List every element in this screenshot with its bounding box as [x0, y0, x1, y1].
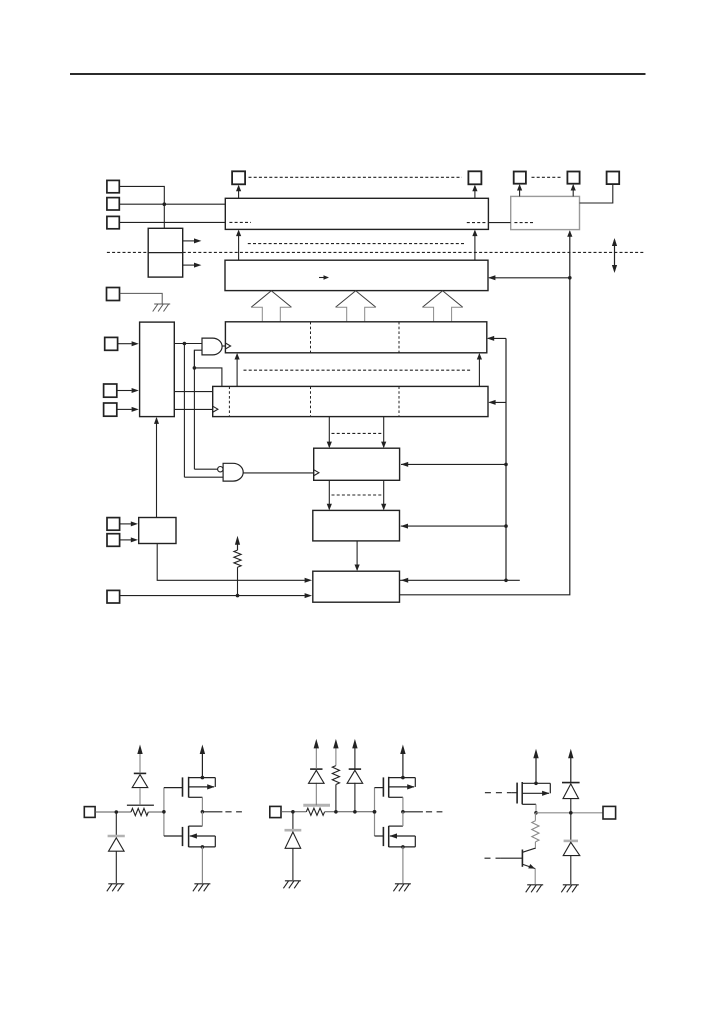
vertical net from AND junction down to G2 lower: [183, 344, 185, 478]
pin box P6: [104, 384, 117, 397]
arrow L1 bottom to B6 right: [383, 480, 385, 509]
dashed line between L1 and B6: [332, 494, 385, 496]
arrow L1 bottom to B6 left: [328, 480, 330, 509]
pin box P3 (top-left 3): [107, 216, 119, 228]
pull-up resistor R1 with arrow to VDD: [237, 567, 239, 595]
wire B5 to B4 clock: [174, 408, 212, 410]
arrow F1 into L1: [504, 463, 508, 467]
top horizontal rule: [70, 73, 646, 75]
clock wedge on B4: [213, 406, 218, 412]
hollow block arrow 1 (B2 to counter): [251, 291, 291, 308]
dashed divider in B3 right: [398, 322, 400, 353]
arrow P6 into B5: [117, 390, 132, 392]
counter box B4: [213, 386, 488, 416]
protection diode D1 to ground: [115, 812, 117, 836]
feedback line F1 vertical: [505, 338, 507, 580]
prescaler divider box B1c: [148, 228, 183, 277]
wire P2 to register box: [119, 203, 225, 205]
CMOS inverter Q1/Q2: [163, 788, 165, 836]
wire node down to prescaler box: [163, 204, 165, 228]
pin box T1 above B1: [232, 171, 245, 184]
hollow block arrow 3: [422, 291, 462, 308]
pin box T5 right: [607, 172, 620, 185]
arrow from oscillator up into B5: [156, 418, 158, 517]
clock wedge on L1: [314, 470, 319, 476]
gate input dashed wire W3: [485, 792, 511, 794]
arrow gray box top to T4: [572, 185, 574, 196]
arrow B4 top to B3 bottom right: [478, 354, 480, 386]
pin box P2 (top-left 2): [107, 198, 119, 210]
arrow gray box top to T3: [519, 185, 521, 196]
pin box P1 (top-left 1): [107, 180, 119, 192]
arrow B4 top to B3 bottom left: [236, 354, 238, 386]
input select tall box B5: [140, 322, 175, 417]
double-headed vertical arrow crossing separator: [614, 240, 616, 271]
main dashed separator line left part: [107, 251, 148, 253]
Q6 emitter to ground: [534, 869, 536, 885]
series resistor R3: [306, 808, 324, 815]
output PMOS Q5: [516, 783, 518, 804]
Q5 drain wire down: [535, 804, 537, 813]
series resistor R2: [131, 808, 148, 815]
output wire to pin: [536, 812, 603, 814]
input wire W2: [281, 811, 306, 813]
protection diode D3 to ground: [292, 812, 294, 830]
junction F2 to B2: [568, 276, 572, 280]
dashed divider in B4 b: [310, 386, 312, 416]
arrow P7 into B5: [117, 408, 132, 410]
dashed divider in B4 a: [228, 386, 230, 416]
wire P1 to node: [119, 186, 164, 204]
dashed divider in B3 left: [310, 322, 312, 353]
arrow out of B1c upper: [183, 240, 195, 242]
arrow F1 into B6: [504, 524, 508, 528]
junction J4: [353, 810, 357, 814]
G2 upper input wire: [194, 468, 217, 470]
ground symbol for P4: [154, 303, 170, 305]
dashed divider in B4 c: [398, 386, 400, 416]
dashed line between B4 and L1: [332, 432, 385, 434]
gray plate over R3: [303, 804, 330, 807]
pin box T4 above gray box: [567, 172, 579, 184]
arrow B1 top to T1: [238, 186, 240, 198]
arrow out of B1c lower: [183, 264, 195, 266]
G2 lower input wire: [184, 476, 223, 478]
AND gate G1 lower input wire: [194, 350, 202, 368]
small right arrow glyph inside B2: [319, 277, 328, 279]
gate G2 (AND with inverted input): [218, 467, 223, 472]
pin box CP1: [84, 807, 95, 818]
output node junction J6: [534, 811, 538, 815]
branch from G1 lower input to B4 data: [194, 368, 222, 387]
junction on AND input: [183, 342, 187, 346]
pin box P7: [104, 403, 117, 416]
G2 output to latch clock: [243, 472, 313, 474]
ground symbol G1a: [108, 883, 124, 885]
NPN transistor Q6: [521, 850, 523, 867]
wire R3 to branches: [325, 811, 375, 813]
box B6 (swallow counter): [313, 510, 400, 541]
wire B5 to B4 upper: [174, 391, 212, 393]
link B1 to gray box with dashed ends: [467, 222, 486, 224]
latch box L1: [314, 448, 400, 480]
arrow B6 bottom to B7: [356, 541, 358, 570]
register box B1 (shift register): [225, 198, 488, 229]
plate bar over R2: [127, 804, 154, 806]
protection diode D5 to VDD: [354, 783, 356, 812]
arrow B2 top to B1 bottom left: [238, 231, 240, 260]
box B7 (phase comparator): [313, 571, 400, 602]
F1 bottom junction into B7: [504, 579, 508, 583]
arrow B4 bottom to latch L1 left: [328, 417, 330, 447]
junction J2: [291, 810, 295, 814]
wire P3 to register box: [119, 221, 225, 223]
dashed bus line upper (data): [248, 243, 466, 245]
pin box CP3: [603, 806, 616, 819]
clamp diode D7 to ground: [570, 813, 572, 841]
pin box T3 above gray box: [514, 172, 526, 184]
arrow F1 into B3: [488, 337, 506, 339]
pin box P10 (bottom left): [107, 590, 120, 603]
clamp diode D6 to VDD: [570, 752, 572, 783]
vertical net from G1 input down to G2: [193, 350, 195, 469]
junction pull-up node: [236, 594, 240, 598]
base resistor R5: [534, 813, 536, 821]
latch box B2: [225, 260, 488, 290]
wire B5 to AND gate upper input: [174, 343, 202, 345]
pin box P4 (test pin): [107, 288, 120, 301]
arrow P8 into B8: [120, 523, 131, 525]
arrow F1 into B4: [489, 401, 506, 403]
pull-up resistor R4 to VDD: [335, 785, 337, 812]
divider line inside B1c: [148, 252, 183, 254]
CMOS inverter Q3/Q4: [374, 788, 376, 836]
ground symbol G2a: [285, 880, 301, 882]
pin box CP2: [270, 806, 281, 817]
junction J1: [115, 810, 119, 814]
pin box P5: [105, 337, 118, 350]
oscillator box B8: [139, 518, 176, 544]
counter box B3: [225, 322, 486, 353]
arrow F2 into B2: [489, 277, 570, 279]
VDD arrow for Q5: [535, 752, 537, 784]
protection diode D2 to VDD: [139, 788, 141, 805]
protection diode D4 plate to VDD: [315, 783, 317, 806]
dashed line between T3 and T4: [532, 176, 562, 178]
ground symbol G3a: [563, 884, 579, 886]
clock wedge on B3: [225, 343, 230, 349]
wire R2 to gate node: [148, 811, 164, 813]
pin box T2 above B1 right: [468, 171, 481, 184]
pin box P8: [107, 518, 120, 531]
arrow B2 top to B1 bottom right: [474, 231, 476, 260]
dashed line between B3 and B4: [244, 369, 471, 371]
dashed continuation inside register left: [229, 221, 251, 223]
arrow P9 into B8: [120, 539, 131, 541]
junction J5: [373, 810, 377, 814]
main dashed separator line right part: [183, 251, 644, 253]
junction J7: [569, 811, 573, 815]
arrow B4 bottom to latch L1 right: [383, 417, 385, 447]
pin box P9: [107, 534, 120, 547]
arrow P5 into B5: [118, 343, 132, 345]
junction J3: [334, 810, 338, 814]
arrow B1 top to T2: [474, 186, 476, 198]
hollow block arrow 2: [336, 291, 376, 308]
G1 output to B3 clock: [222, 345, 225, 347]
dashed line between T1 and T2: [249, 176, 462, 178]
AND gate G1: [202, 338, 222, 355]
wire T5 to gray box right edge: [580, 184, 613, 203]
node junction at serial bus: [163, 202, 167, 206]
wire P4 to ground: [120, 293, 162, 303]
input wire W1: [95, 811, 131, 813]
ground symbol G3b: [527, 884, 543, 886]
wire P10 to B7 input: [120, 595, 305, 597]
wire B8 bottom to B7 input: [157, 544, 305, 581]
gray control box B1b: [511, 196, 580, 229]
feedback line F2 from B7 to gray box: [400, 231, 570, 594]
